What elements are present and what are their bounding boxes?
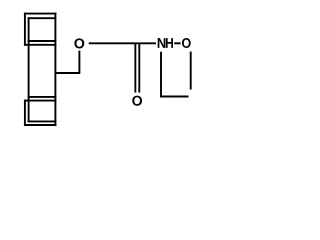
ring A top outer bond — [24, 13, 56, 15]
left inner long vertical bond — [28, 17, 30, 122]
ring A bottom inner double bond — [28, 40, 57, 42]
atom label hydroxylamine O — [182, 38, 191, 48]
ring C: O down bond — [190, 52, 192, 90]
ring B bottom inner double bond — [28, 120, 57, 122]
ester O to carbonyl C to N bond — [89, 42, 156, 44]
ring B top inner bond — [28, 96, 57, 98]
atom label ester O — [74, 38, 84, 48]
CH2 bridge bond to ester O — [55, 51, 79, 73]
atom label H of NH — [166, 38, 173, 48]
ring B left outer bond — [24, 100, 26, 126]
ring C: N down bond and bottom C-C bond — [161, 52, 189, 97]
ring A bottom outer bond — [24, 44, 56, 46]
ring A left outer bond — [24, 13, 26, 46]
ring A top inner double bond — [28, 17, 57, 19]
right long vertical bond — [54, 13, 56, 126]
atom label carbonyl O — [132, 96, 142, 106]
carbonyl C=O double bond line 1 — [134, 43, 136, 92]
ring B top outer bond — [24, 100, 56, 102]
atom label N of NH — [158, 38, 166, 48]
N-O single bond — [174, 42, 180, 44]
ring B bottom outer bond — [24, 124, 56, 126]
carbonyl C=O double bond line 2 — [138, 43, 140, 92]
